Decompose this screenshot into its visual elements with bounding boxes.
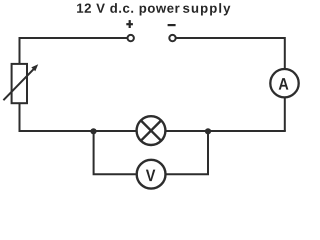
wire: top-left horizontal from left vertical to + terminal [20, 37, 128, 39]
title label "12 V d.c. power supply" [77, 3, 179, 15]
wire: bottom rail from lamp to right vertical [166, 130, 285, 132]
junction dot left [90, 128, 96, 134]
terminal + (open circle) [128, 35, 134, 41]
lamp (circle with X) [137, 116, 166, 145]
voltmeter V [137, 160, 166, 189]
wire: from − terminal right then down to ammeter top [176, 38, 285, 69]
wire: ammeter bottom down to bottom rail [284, 98, 286, 131]
variable resistor (rheostat) [3, 64, 38, 103]
terminal − (open circle) [169, 35, 175, 41]
junction dot right [205, 128, 211, 134]
minus label (−) [168, 24, 176, 26]
wire: resistor bottom down then bottom rail to lamp [20, 103, 136, 131]
ammeter A [270, 69, 298, 97]
wire: left vertical from top rail to resistor top [19, 37, 21, 64]
wire: left voltmeter branch (down from left junction, right to voltmeter) [94, 133, 136, 174]
wire: right voltmeter branch (down from right junction, left to voltmeter) [167, 133, 209, 174]
plus label (+) [126, 20, 133, 28]
